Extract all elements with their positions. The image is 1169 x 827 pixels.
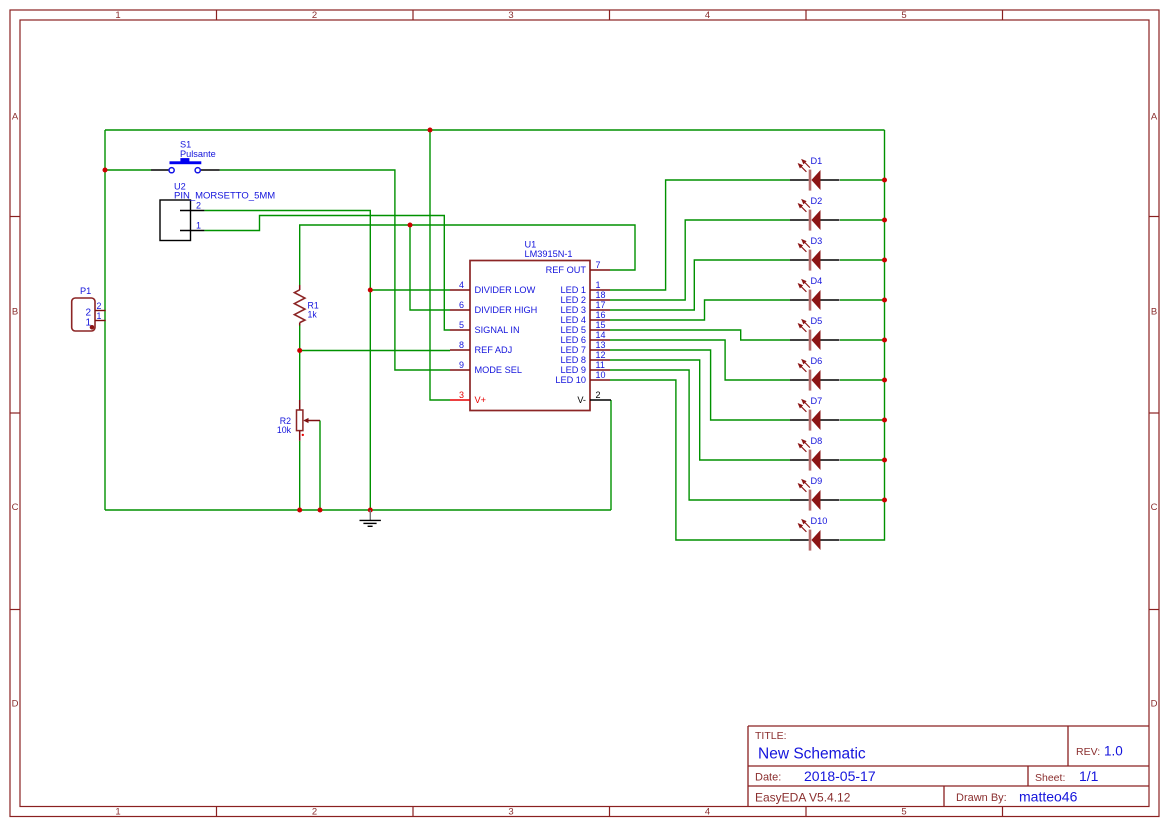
svg-text:1: 1	[196, 221, 201, 231]
svg-text:4: 4	[705, 807, 710, 818]
node junction at 410,225	[408, 223, 413, 228]
svg-text:3: 3	[508, 807, 513, 818]
svg-text:D9: D9	[811, 476, 823, 486]
wire D1 to bus	[840, 179, 885, 181]
wire bottom ground rail	[105, 509, 611, 511]
wire S1 right to MODE SEL	[220, 170, 450, 370]
wire D4 to bus	[840, 299, 885, 301]
svg-text:17: 17	[596, 300, 606, 310]
U1 pin 2 V-	[577, 390, 611, 405]
svg-text:B: B	[1151, 307, 1157, 318]
node junction at 884.5,260	[882, 258, 887, 263]
svg-text:EasyEDA V5.4.12: EasyEDA V5.4.12	[755, 791, 851, 805]
svg-text:6: 6	[459, 300, 464, 310]
svg-text:SIGNAL IN: SIGNAL IN	[475, 325, 520, 335]
svg-text:10: 10	[596, 370, 606, 380]
U1 pin 14 LED 6	[560, 330, 610, 345]
svg-text:3: 3	[508, 10, 513, 21]
wire D9 to bus	[840, 499, 885, 501]
node junction at 884.5,380	[882, 378, 887, 383]
svg-text:V+: V+	[475, 395, 487, 405]
wire U1 LED6 pin to D6	[610, 340, 790, 380]
svg-text:D: D	[1151, 699, 1158, 710]
svg-text:D6: D6	[811, 356, 823, 366]
U1 pin 10 LED 10	[555, 370, 610, 385]
svg-text:1: 1	[115, 807, 120, 818]
wire U1 LED5 pin to D5	[610, 330, 790, 340]
U1 pin 8 REF ADJ	[450, 340, 512, 355]
node junction at 884.5,180	[882, 178, 887, 183]
wire D5 to bus	[840, 339, 885, 341]
node junction at 884.5,420	[882, 418, 887, 423]
svg-text:Sheet:: Sheet:	[1035, 772, 1065, 784]
wire D2 to bus	[840, 219, 885, 221]
node junction at 105,170	[103, 168, 108, 173]
svg-text:TITLE:: TITLE:	[755, 730, 787, 742]
svg-text:REF ADJ: REF ADJ	[475, 345, 513, 355]
node junction at 884.5,460	[882, 458, 887, 463]
wire U1 LED4 pin to D4	[610, 300, 790, 320]
wire left rail	[104, 130, 106, 510]
resistor R1 1k	[294, 285, 318, 326]
LED D7	[790, 396, 840, 431]
node junction at 320,510	[318, 508, 323, 513]
U1 pin 3 V+	[450, 390, 486, 405]
svg-text:1: 1	[97, 311, 102, 321]
U1 pin 15 LED 5	[560, 320, 610, 335]
svg-text:New Schematic: New Schematic	[758, 746, 866, 763]
wire D6 to bus	[840, 379, 885, 381]
svg-text:Drawn By:: Drawn By:	[956, 792, 1007, 804]
LED D10	[790, 516, 840, 551]
svg-text:D3: D3	[811, 236, 823, 246]
svg-text:D1: D1	[811, 156, 823, 166]
wire U2 pin2 to ground rail	[204, 211, 370, 511]
wire U1 LED9 pin to D9	[610, 370, 790, 500]
svg-text:18: 18	[596, 290, 606, 300]
node junction at 884.5,340	[882, 338, 887, 343]
svg-text:DIVIDER LOW: DIVIDER LOW	[475, 285, 536, 295]
svg-text:matteo46: matteo46	[1019, 789, 1078, 805]
svg-text:A: A	[1151, 112, 1158, 123]
U1 pin 11 LED 9	[560, 360, 610, 375]
svg-text:2: 2	[312, 10, 317, 21]
wire D8 to bus	[840, 459, 885, 461]
svg-text:LED 5: LED 5	[560, 325, 586, 335]
LED D3	[790, 236, 840, 271]
svg-text:15: 15	[596, 320, 606, 330]
ground	[360, 510, 381, 526]
connector P1	[72, 286, 106, 331]
U1 pin 6 DIVIDER HIGH	[450, 300, 537, 315]
svg-text:1: 1	[85, 317, 91, 328]
wire U1 LED2 pin to D2	[610, 220, 790, 300]
connector U2 PIN_MORSETTO_5MM	[160, 182, 275, 241]
svg-text:V-: V-	[577, 395, 586, 405]
LED D8	[790, 436, 840, 471]
wire DIVIDER LOW to U2 pin2 net	[370, 289, 450, 291]
LED D6	[790, 356, 840, 391]
U1 pin 5 SIGNAL IN	[450, 320, 520, 335]
svg-text:C: C	[12, 502, 19, 513]
U1 pin 18 LED 2	[560, 290, 610, 305]
U1 pin 17 LED 3	[560, 300, 610, 315]
node junction at 299.7,350.5	[297, 348, 302, 353]
U1 pin 9 MODE SEL	[450, 360, 522, 375]
U1 pin 12 LED 8	[560, 350, 610, 365]
op-amp U1 LM3915N-1 body	[470, 240, 590, 411]
svg-text:LED 3: LED 3	[560, 305, 586, 315]
svg-text:D: D	[12, 699, 19, 710]
U1 pin 4 DIVIDER LOW	[450, 280, 536, 295]
svg-text:Pulsante: Pulsante	[180, 149, 216, 159]
svg-text:S1: S1	[180, 140, 191, 150]
svg-text:11: 11	[596, 360, 605, 370]
svg-text:REV:: REV:	[1076, 746, 1100, 758]
wire V- to ground rail	[610, 400, 612, 510]
svg-text:5: 5	[901, 807, 906, 818]
svg-text:LED 1: LED 1	[560, 285, 586, 295]
svg-text:B: B	[12, 307, 18, 318]
svg-text:14: 14	[596, 330, 606, 340]
LED D4	[790, 276, 840, 311]
wire U1 LED7 pin to D7	[610, 350, 790, 420]
wire D3 to bus	[840, 259, 885, 261]
svg-text:13: 13	[596, 340, 606, 350]
LED D2	[790, 196, 840, 231]
switch S1	[151, 140, 220, 173]
svg-text:5: 5	[459, 320, 464, 330]
U1 pin 13 LED 7	[560, 340, 610, 355]
svg-text:LM3915N-1: LM3915N-1	[525, 249, 573, 259]
svg-text:REF OUT: REF OUT	[546, 265, 587, 275]
wire REF ADJ to R1/R2 node	[300, 350, 450, 352]
wire S1 left to rail	[105, 169, 151, 171]
svg-text:4: 4	[705, 10, 710, 21]
svg-text:2: 2	[312, 807, 317, 818]
node junction at 370.3,290	[368, 288, 373, 293]
U1 pin 7 REF OUT	[546, 260, 610, 275]
U1 pin 16 LED 4	[560, 310, 610, 325]
svg-text:16: 16	[596, 310, 606, 320]
wire REF OUT loop to R1 top	[300, 225, 635, 285]
svg-text:P1: P1	[80, 286, 91, 296]
node junction at 884.5,300	[882, 298, 887, 303]
wire U2 pin1 to SIGNAL IN	[204, 216, 450, 331]
svg-text:LED 6: LED 6	[560, 335, 586, 345]
wire U1 LED8 pin to D8	[610, 360, 790, 460]
svg-text:LED 7: LED 7	[560, 345, 586, 355]
svg-text:5: 5	[901, 10, 906, 21]
wire U1 LED1 pin to D1	[610, 180, 790, 290]
LED D9	[790, 476, 840, 511]
svg-text:D2: D2	[811, 196, 823, 206]
node junction at 370.3,510	[368, 508, 373, 513]
node junction at 884.5,220	[882, 218, 887, 223]
svg-text:Date:: Date:	[755, 772, 781, 784]
svg-text:LED 2: LED 2	[560, 295, 586, 305]
svg-text:9: 9	[459, 360, 464, 370]
node junction at 430,130	[428, 128, 433, 133]
svg-text:D8: D8	[811, 436, 823, 446]
svg-text:1: 1	[115, 10, 120, 21]
svg-text:1.0: 1.0	[1104, 744, 1123, 759]
wire U1 LED10 pin to D10	[610, 380, 790, 540]
svg-text:7: 7	[596, 260, 601, 270]
svg-text:2018-05-17: 2018-05-17	[804, 768, 876, 784]
svg-text:2: 2	[196, 201, 201, 211]
wire V+ drop from top rail	[430, 130, 450, 400]
svg-text:D4: D4	[811, 276, 823, 286]
svg-text:LED 10: LED 10	[555, 375, 586, 385]
svg-text:10k: 10k	[277, 425, 292, 435]
svg-text:LED 4: LED 4	[560, 315, 586, 325]
svg-text:LED 9: LED 9	[560, 365, 586, 375]
svg-text:2: 2	[596, 390, 601, 400]
wire R1 bottom to R2 top	[299, 326, 301, 401]
LED D5	[790, 316, 840, 351]
svg-text:4: 4	[459, 280, 464, 290]
wire D7 to bus	[840, 419, 885, 421]
node junction at 299.7,510	[297, 508, 302, 513]
wire R2 wiper to rail	[319, 421, 321, 511]
svg-text:D5: D5	[811, 316, 823, 326]
svg-text:2: 2	[97, 301, 102, 311]
wire R2 bottom to rail	[299, 441, 301, 510]
svg-text:12: 12	[596, 350, 606, 360]
svg-text:MODE SEL: MODE SEL	[475, 365, 522, 375]
svg-text:1/1: 1/1	[1079, 768, 1099, 784]
U1 pin 1 LED 1	[560, 280, 610, 295]
svg-text:PIN_MORSETTO_5MM: PIN_MORSETTO_5MM	[174, 191, 275, 202]
node junction at 884.5,500	[882, 498, 887, 503]
wire U1 LED3 pin to D3	[610, 260, 790, 310]
wire top power rail	[105, 129, 885, 131]
svg-text:DIVIDER HIGH: DIVIDER HIGH	[475, 305, 538, 315]
svg-text:1k: 1k	[308, 309, 318, 319]
LED D1	[790, 156, 840, 191]
svg-text:A: A	[12, 112, 19, 123]
svg-text:D10: D10	[811, 516, 828, 526]
svg-text:8: 8	[459, 340, 464, 350]
potentiometer R2 10k	[277, 400, 320, 441]
svg-text:LED 8: LED 8	[560, 355, 586, 365]
svg-text:3: 3	[459, 390, 464, 400]
wire DIVIDER HIGH branch	[410, 225, 450, 310]
svg-text:D7: D7	[811, 396, 823, 406]
svg-text:U1: U1	[525, 240, 537, 250]
svg-text:C: C	[1151, 502, 1158, 513]
svg-text:1: 1	[596, 280, 601, 290]
wire LED cathode bus	[840, 130, 885, 540]
